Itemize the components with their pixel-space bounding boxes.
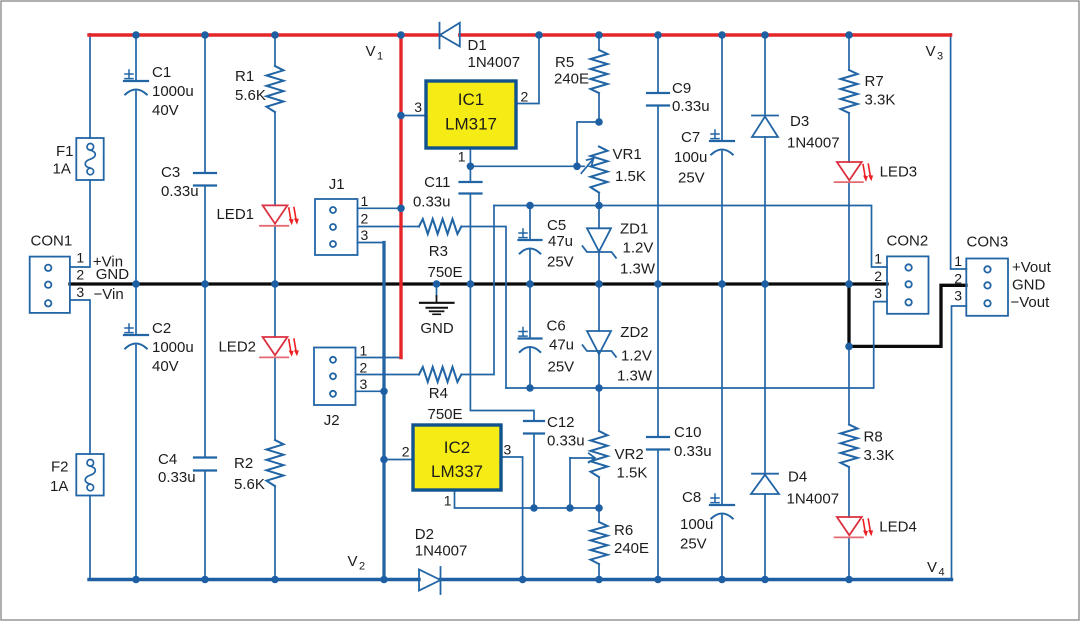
svg-text:CON3: CON3: [967, 234, 1009, 251]
black GND rail: [70, 282, 887, 285]
connector CON2: [887, 256, 929, 313]
svg-text:C1: C1: [152, 64, 171, 81]
svg-text:C5: C5: [547, 217, 566, 234]
wire IC2 pin3 to V2 rail: [501, 457, 523, 580]
svg-text:R7: R7: [865, 73, 884, 90]
capacitor C9: [647, 93, 669, 106]
capacitor C2: [124, 324, 148, 349]
wire J2 pin3: [356, 390, 385, 392]
svg-text:0.33u: 0.33u: [161, 183, 199, 200]
label C6: [547, 317, 575, 375]
wire R7 LED3 column: [848, 35, 850, 284]
wire R5 VR1 column: [598, 35, 600, 206]
svg-text:1: 1: [377, 51, 383, 63]
svg-text:R1: R1: [235, 68, 254, 85]
svg-text:LED3: LED3: [880, 164, 918, 181]
svg-text:IC1: IC1: [458, 90, 484, 109]
fuse F1: [76, 138, 103, 180]
wire mid rail upper to CON2 pin1: [494, 206, 887, 268]
svg-text:1.5K: 1.5K: [615, 168, 646, 185]
wire IC2 pin1 ADJ line: [455, 490, 600, 508]
label R6: [614, 522, 649, 557]
wire ZD2 column: [598, 284, 600, 388]
wire R8 LED4 column: [848, 346, 850, 579]
capacitor C5: [519, 229, 542, 254]
wire C1 column: [135, 35, 137, 284]
svg-text:1N4007: 1N4007: [787, 135, 840, 152]
svg-text:D2: D2: [415, 526, 434, 543]
label GND symbol: [420, 320, 454, 337]
resistor R6: [591, 522, 608, 564]
wire IC2 pin2: [384, 459, 413, 461]
capacitor C12: [524, 421, 544, 434]
junction dots on V1 V3 red rail: [132, 31, 853, 39]
label C11: [413, 174, 451, 211]
label C12: [547, 414, 585, 450]
label D1: [468, 37, 521, 71]
svg-text:R5: R5: [555, 54, 574, 71]
svg-text:LED4: LED4: [879, 519, 917, 536]
node V2: [348, 553, 366, 573]
svg-text:750E: 750E: [428, 264, 463, 281]
svg-text:1: 1: [874, 251, 882, 267]
wire R3 right to mid rail V4 side: [461, 227, 506, 389]
wire J1 pin1 to red vertical: [358, 207, 402, 209]
svg-text:2: 2: [360, 360, 368, 376]
svg-text:1: 1: [458, 149, 466, 165]
svg-text:3: 3: [937, 51, 943, 63]
IC2 text: [431, 438, 483, 481]
svg-text:1N4007: 1N4007: [468, 54, 521, 71]
label F1: [53, 143, 74, 178]
wire C2 column: [135, 284, 137, 580]
op-amp regulator IC1 LM317: [426, 81, 516, 148]
svg-text:0.33u: 0.33u: [674, 443, 712, 460]
label R7: [865, 73, 896, 109]
svg-text:0.33u: 0.33u: [413, 194, 451, 211]
svg-text:R6: R6: [614, 522, 633, 539]
wire C9 column: [657, 35, 659, 284]
svg-text:1: 1: [360, 343, 368, 359]
capacitor C11: [460, 182, 482, 194]
svg-text:100u: 100u: [680, 516, 713, 533]
svg-text:2: 2: [359, 561, 365, 573]
connector CON3: [966, 259, 1008, 316]
LED4: [835, 517, 874, 537]
svg-text:F2: F2: [51, 459, 69, 476]
label R4: [428, 385, 463, 423]
svg-text:D4: D4: [788, 469, 807, 486]
label C9: [672, 80, 710, 115]
svg-text:3: 3: [360, 376, 368, 392]
svg-text:3: 3: [874, 285, 882, 301]
junction dots on V2 V4 bottom rail: [132, 576, 853, 584]
capacitor C3: [194, 173, 216, 186]
svg-text:1: 1: [361, 193, 369, 209]
svg-text:ZD1: ZD1: [620, 221, 648, 238]
svg-text:3.3K: 3.3K: [865, 92, 896, 109]
wire R4 right to mid rail V3 side: [461, 206, 494, 375]
zener ZD2: [583, 331, 617, 357]
svg-text:5.6K: 5.6K: [235, 87, 266, 104]
svg-text:C9: C9: [672, 80, 691, 97]
svg-text:V: V: [927, 559, 937, 576]
ground symbol: [420, 284, 454, 314]
resistor R5: [591, 50, 608, 93]
label J2: [324, 343, 368, 430]
junction dots on GND rail: [132, 280, 853, 350]
svg-text:V: V: [348, 553, 358, 570]
svg-text:IC2: IC2: [444, 438, 470, 457]
svg-text:C11: C11: [424, 174, 450, 191]
resistor R1: [267, 66, 284, 112]
wire C5 column: [529, 206, 531, 285]
svg-text:750E: 750E: [428, 406, 463, 423]
svg-text:240E: 240E: [554, 71, 589, 88]
svg-text:1.2V: 1.2V: [623, 240, 654, 257]
resistor R8: [841, 425, 858, 467]
label C8: [680, 489, 713, 553]
label LED4: [879, 519, 917, 536]
svg-text:47u: 47u: [548, 233, 573, 250]
IC1 pin numbers: [414, 89, 528, 165]
svg-text:LED2: LED2: [218, 339, 256, 356]
wire CON3 pin3 to V4 rail: [952, 306, 967, 580]
wire J2 pin1: [356, 357, 402, 359]
op-amp regulator IC2 LM337: [413, 425, 501, 490]
svg-text:−Vout: −Vout: [1011, 294, 1051, 311]
label C10: [674, 424, 712, 460]
potentiometer VR1: [581, 147, 607, 193]
CON2 pin numbers: [874, 251, 882, 302]
wire mid rail lower to CON2 pin3: [506, 302, 887, 388]
CON1 pin numbers and net names: [76, 249, 129, 303]
svg-text:40V: 40V: [152, 102, 179, 119]
wire C7 column: [721, 35, 723, 284]
svg-text:+Vout: +Vout: [1012, 259, 1052, 276]
IC2 pin numbers: [402, 442, 512, 509]
svg-text:1000u: 1000u: [152, 83, 194, 100]
label R3: [428, 243, 463, 281]
label D4: [787, 469, 840, 508]
svg-text:3: 3: [414, 99, 422, 115]
wire VR2 R6 column: [598, 388, 600, 580]
svg-text:25V: 25V: [678, 170, 705, 187]
svg-text:C4: C4: [158, 451, 177, 468]
node V1: [366, 43, 384, 63]
svg-text:0.33u: 0.33u: [547, 433, 585, 450]
svg-text:0.33u: 0.33u: [158, 469, 196, 486]
svg-text:CON1: CON1: [31, 232, 73, 249]
junction dots on lower mid rail: [526, 384, 603, 392]
LED3: [835, 162, 874, 182]
wire J2 pin2 to R4: [356, 374, 420, 376]
svg-text:1.2V: 1.2V: [621, 347, 652, 364]
label ZD2: [617, 324, 653, 385]
junction dots on upper mid rail: [526, 202, 603, 210]
label ZD1: [620, 221, 656, 278]
svg-text:1: 1: [76, 249, 84, 265]
svg-text:C7: C7: [681, 129, 700, 146]
label R5: [554, 54, 589, 88]
node V3: [926, 43, 944, 63]
diode D4: [751, 474, 779, 494]
svg-text:C8: C8: [682, 489, 701, 506]
svg-text:3: 3: [954, 288, 962, 304]
wire VR2 wiper tie: [569, 458, 571, 508]
wire ZD1 column: [598, 206, 600, 285]
svg-text:VR2: VR2: [615, 446, 644, 463]
svg-text:LM337: LM337: [431, 462, 483, 481]
wire IC1 pin2 to output rail: [516, 34, 539, 104]
svg-text:R8: R8: [864, 429, 883, 446]
svg-text:1A: 1A: [50, 478, 68, 495]
svg-text:25V: 25V: [548, 359, 575, 376]
svg-text:V: V: [366, 43, 376, 60]
label LED1: [216, 206, 254, 223]
svg-text:25V: 25V: [547, 254, 574, 271]
label F2: [50, 459, 69, 496]
label VR1: [613, 146, 646, 185]
svg-text:47u: 47u: [549, 337, 574, 354]
wire C10 column: [657, 284, 659, 580]
svg-text:J1: J1: [329, 176, 345, 193]
label R2: [234, 455, 265, 493]
capacitor C4: [194, 458, 216, 471]
label J1: [329, 176, 369, 243]
svg-text:1: 1: [444, 493, 452, 509]
svg-text:4: 4: [939, 567, 945, 579]
svg-text:2: 2: [402, 444, 410, 460]
node V4: [927, 559, 945, 579]
label CON1: [31, 232, 73, 249]
svg-text:R2: R2: [234, 455, 253, 472]
label C4: [158, 451, 196, 486]
LED1: [260, 205, 299, 225]
wire C6 column: [529, 284, 531, 388]
svg-text:2: 2: [76, 267, 84, 283]
label D2: [415, 526, 468, 560]
svg-text:GND: GND: [96, 266, 130, 283]
svg-text:3: 3: [504, 442, 512, 458]
svg-text:CON2: CON2: [887, 233, 929, 250]
svg-text:2: 2: [361, 211, 369, 227]
svg-text:1: 1: [954, 253, 962, 269]
svg-text:C12: C12: [547, 414, 575, 431]
svg-text:GND: GND: [1012, 276, 1046, 293]
svg-text:F1: F1: [56, 143, 74, 160]
label R1: [235, 68, 266, 104]
svg-text:1000u: 1000u: [152, 339, 194, 356]
wire C12 bottom to ADJ line: [533, 434, 535, 509]
svg-text:1N4007: 1N4007: [415, 543, 468, 560]
svg-text:3: 3: [76, 284, 84, 300]
V1 V3 red top rail: [89, 33, 951, 36]
fuse F2: [76, 454, 103, 496]
connector J1: [315, 199, 358, 255]
svg-text:C6: C6: [547, 317, 566, 334]
diode D2: [419, 567, 441, 594]
resistor R4: [419, 367, 461, 382]
diode D3: [752, 116, 778, 138]
svg-text:2: 2: [874, 268, 882, 284]
CON3 pin numbers and net names: [954, 253, 1051, 311]
label CON2: [887, 233, 929, 250]
label C5: [547, 217, 574, 271]
wire C4 column: [204, 284, 206, 580]
svg-text:D1: D1: [468, 37, 487, 54]
svg-text:VR1: VR1: [613, 146, 642, 163]
svg-text:R3: R3: [429, 243, 448, 260]
junction dots ADJ1 node: [467, 118, 603, 170]
svg-text:LED1: LED1: [216, 206, 254, 223]
wire VR1 top tie: [577, 122, 599, 166]
label VR2: [615, 446, 648, 482]
wire D3 column: [764, 35, 766, 284]
wire CON1 pin1 to F1: [70, 180, 90, 267]
capacitor C1: [124, 70, 148, 95]
svg-text:25V: 25V: [680, 536, 707, 553]
junction dots on red vertical: [397, 112, 405, 212]
LED2: [260, 337, 299, 357]
wire J1 pin3 to bus: [358, 242, 385, 244]
wire J1 pin2 to R3: [358, 226, 420, 228]
wire V3 rail to CON3 pin1: [951, 34, 967, 269]
wire F2 to V2 bottom rail: [89, 496, 91, 580]
svg-text:240E: 240E: [614, 540, 649, 557]
svg-text:V: V: [926, 43, 936, 60]
wire IC1 pin1 to C11: [469, 148, 471, 182]
svg-text:100u: 100u: [674, 149, 707, 166]
label LED2: [218, 339, 256, 356]
svg-text:1.3W: 1.3W: [617, 368, 653, 385]
label C1: [152, 64, 194, 119]
zener ZD1: [583, 228, 617, 257]
V2 V4 bottom rail: [89, 578, 952, 581]
resistor R3: [419, 219, 461, 234]
wire IC1 pin3: [401, 115, 426, 117]
junction dots ADJ2 line: [530, 504, 603, 512]
diode D1: [440, 23, 460, 49]
label C3: [161, 164, 199, 200]
svg-text:3.3K: 3.3K: [864, 447, 895, 464]
svg-text:0.33u: 0.33u: [672, 98, 710, 115]
svg-text:40V: 40V: [152, 358, 179, 375]
wire C3 column: [204, 35, 206, 284]
label D3: [787, 113, 840, 152]
svg-text:5.6K: 5.6K: [234, 476, 265, 493]
black GND branch to CON3 pin2: [849, 284, 966, 346]
IC1 text: [445, 90, 497, 134]
label LED3: [880, 164, 918, 181]
red vertical V1 to J2 pin1: [399, 33, 402, 357]
capacitor C8: [710, 494, 734, 519]
wire LED2 R2 column: [274, 284, 276, 580]
wire ADJ1 node to VR1 wiper: [470, 165, 584, 167]
svg-text:2: 2: [954, 270, 962, 286]
junction dots on J bus: [380, 388, 388, 464]
label CON3: [967, 234, 1009, 251]
resistor R2: [267, 440, 284, 486]
svg-text:1N4007: 1N4007: [787, 491, 840, 508]
svg-text:R4: R4: [429, 385, 448, 402]
svg-text:D3: D3: [790, 113, 809, 130]
svg-text:1A: 1A: [53, 161, 71, 178]
connector J2: [314, 348, 356, 406]
label C2: [152, 320, 194, 375]
wire R1 LED1 column: [274, 35, 276, 284]
svg-text:J2: J2: [324, 412, 340, 429]
capacitor C6: [519, 328, 542, 353]
wire F1 to +V red rail: [89, 34, 91, 138]
capacitor C7: [710, 130, 734, 155]
svg-text:C2: C2: [152, 320, 171, 337]
svg-text:ZD2: ZD2: [620, 324, 648, 341]
potentiometer VR2: [570, 431, 608, 477]
wire C11 bottom to GND rail and to C12: [470, 194, 534, 422]
svg-text:LM317: LM317: [445, 115, 497, 134]
svg-text:3: 3: [361, 227, 369, 243]
svg-text:−Vin: −Vin: [94, 286, 124, 303]
svg-text:C10: C10: [674, 424, 702, 441]
svg-text:1.3W: 1.3W: [620, 261, 656, 278]
svg-text:GND: GND: [420, 320, 454, 337]
wire CON1 pin3 to F2: [70, 300, 90, 454]
svg-text:1.5K: 1.5K: [617, 465, 648, 482]
resistor R7: [841, 70, 858, 113]
wire J1 pin3 bus down to V2 rail: [382, 243, 385, 580]
svg-text:C3: C3: [161, 164, 180, 181]
capacitor C10: [647, 437, 669, 450]
wire D4 column: [764, 284, 766, 580]
connector CON1: [30, 257, 70, 313]
label R8: [864, 429, 895, 465]
svg-text:2: 2: [521, 89, 529, 105]
wire C8 column: [721, 284, 723, 580]
label C7: [674, 129, 707, 187]
